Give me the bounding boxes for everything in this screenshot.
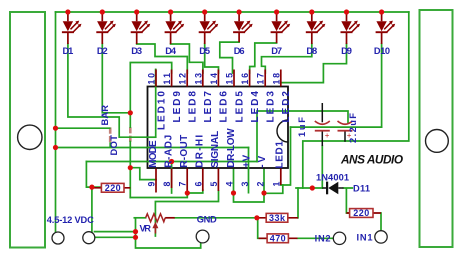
wire: gnd riser inside IC — [257, 111, 289, 162]
svg-text:ANS AUDIO: ANS AUDIO — [340, 153, 403, 167]
LED D2 — [96, 12, 116, 44]
svg-text:+: + — [325, 131, 330, 140]
wire: 470 to IN2 pad — [298, 237, 334, 239]
svg-text:DR-LOW: DR-LOW — [226, 128, 237, 168]
wire: VR left column down to ground pad — [136, 218, 201, 248]
wire: junction down to 220 link — [129, 168, 131, 198]
wire: pin 4 to pin 2 loop — [234, 193, 265, 202]
mounting hole right — [426, 130, 449, 153]
mounting hole left — [18, 125, 42, 149]
svg-text:VR: VR — [140, 224, 152, 234]
svg-text:1: 1 — [271, 182, 281, 187]
wire: pin 3 drop inside IC — [248, 148, 250, 169]
pin 6 stub — [202, 169, 204, 192]
node pin7 — [185, 190, 190, 195]
board edge strip right — [420, 10, 453, 247]
pad VDC minus — [83, 232, 95, 244]
pin 8 stub — [171, 169, 173, 189]
LED D8 — [306, 12, 326, 44]
wire: cap line y127 from pin1 riser to D10 — [291, 126, 382, 128]
svg-text:LED3: LED3 — [266, 91, 277, 123]
svg-text:18: 18 — [271, 73, 281, 85]
svg-text:5: 5 — [209, 182, 219, 187]
wire: mode net jog to pin 9 — [130, 168, 156, 180]
wire: dot node vertical and to pin 11 — [130, 63, 171, 128]
wire: +V rail right drop — [303, 12, 409, 188]
svg-text:D2: D2 — [97, 46, 108, 56]
svg-text:4.5-12 VDC: 4.5-12 VDC — [47, 215, 94, 225]
wire: pin 7 to pin 6 — [187, 190, 203, 193]
node pin2 — [261, 190, 266, 195]
svg-text:D3: D3 — [131, 46, 142, 56]
wire: D4 cathode to pin 13 — [171, 44, 203, 73]
LED D1 — [62, 12, 82, 44]
node D9 anode — [344, 9, 349, 14]
svg-text:7: 7 — [178, 182, 188, 187]
wire: +V rail left drop to supply pad — [55, 12, 57, 233]
pin 17 stub — [264, 70, 266, 87]
wire: dot node green tail to mode line — [129, 142, 131, 148]
svg-text:D6: D6 — [234, 46, 245, 56]
wire: +V line across IC — [148, 147, 249, 149]
svg-text:GND: GND — [197, 215, 217, 225]
wire: D1 cathode to pin 10 — [68, 44, 156, 137]
wire: ground drop to supply minus pad — [91, 187, 93, 232]
pin 9 stub — [155, 169, 157, 193]
svg-text:17: 17 — [256, 73, 266, 85]
resistor 470 — [259, 233, 298, 243]
svg-text:IN2: IN2 — [315, 234, 331, 244]
svg-text:+V: +V — [241, 154, 252, 167]
resistor 220 (right, input) — [346, 208, 381, 218]
LED D3 — [131, 12, 151, 44]
node dot-jumper — [128, 110, 133, 115]
node D5 anode — [202, 9, 207, 14]
pin 18 stub — [280, 70, 282, 87]
wire: VR left lead — [134, 217, 145, 219]
wire: +V line y147.5 to pin 3 — [56, 148, 249, 193]
pin 11 stub — [171, 70, 173, 87]
svg-text:16: 16 — [240, 73, 250, 85]
wire: pin 8 drop — [171, 162, 173, 194]
svg-text:LED9: LED9 — [172, 91, 183, 123]
pin 13 stub — [202, 70, 204, 87]
wire: +V top rail — [56, 11, 409, 13]
svg-text:SIGNAL: SIGNAL — [210, 131, 221, 168]
wire: +V branch y128 to BAR jumper — [56, 127, 110, 129]
LED D5 — [199, 12, 219, 44]
svg-text:3: 3 — [240, 182, 250, 187]
wire: D6 cathode to pin 15 — [220, 42, 239, 73]
node D7 anode — [274, 9, 279, 14]
node rail y147 — [53, 145, 58, 150]
svg-text:LED6: LED6 — [219, 91, 230, 123]
pin 1 stub — [280, 169, 282, 186]
svg-text:14: 14 — [209, 73, 219, 85]
svg-text:8: 8 — [162, 182, 172, 187]
wire: pin 10 jog inside IC — [147, 136, 156, 138]
VR wiper arrow — [154, 228, 156, 234]
wire: pin 5 to VR wiper — [155, 191, 218, 236]
node 220 left — [89, 185, 94, 190]
wire: D10 cathode down to cap line — [381, 44, 383, 127]
svg-text:220: 220 — [353, 208, 369, 218]
svg-text:DOT: DOT — [109, 135, 119, 156]
node gnd line — [254, 215, 259, 220]
wire: +V line to diode anode — [296, 187, 322, 189]
pin 10 stub — [155, 70, 157, 87]
svg-text:D7: D7 — [271, 46, 282, 56]
svg-text:D4: D4 — [165, 46, 177, 56]
pin 16 stub — [249, 70, 251, 87]
pin 12 stub — [186, 70, 188, 87]
svg-text:1uF: 1uF — [297, 117, 307, 137]
svg-text:D5: D5 — [199, 46, 210, 56]
svg-text:10: 10 — [147, 73, 157, 85]
svg-text:1N4001: 1N4001 — [316, 173, 349, 183]
green wires drawn over IC body — [147, 70, 289, 169]
svg-text:2.2uF: 2.2uF — [348, 113, 358, 143]
pin 5 stub — [217, 169, 219, 192]
pad IN1 — [375, 231, 387, 243]
LED D4 — [165, 12, 185, 44]
svg-text:D8: D8 — [306, 46, 317, 56]
svg-text:IN1: IN1 — [357, 233, 373, 243]
LED D9 — [341, 12, 361, 44]
wire: pin 1 hook to -V node — [264, 185, 283, 193]
LED D6 — [233, 12, 253, 42]
svg-text:R-ADJ: R-ADJ — [163, 135, 174, 168]
svg-text:LED2: LED2 — [281, 91, 292, 123]
svg-text:MODE: MODE — [148, 140, 159, 168]
jumper BAR — [109, 127, 112, 142]
wire: pin 2 stub green — [263, 169, 265, 194]
svg-text:9: 9 — [147, 182, 157, 187]
LED D7 — [271, 12, 291, 43]
node rail y128 — [53, 126, 58, 131]
svg-text:470: 470 — [270, 233, 286, 243]
pad VDC plus — [52, 232, 64, 244]
node mode junction — [128, 165, 133, 170]
node vr column b — [133, 235, 138, 240]
wire: diode cathode to 220 — [344, 188, 353, 213]
wire: pin 4 stub green — [233, 169, 235, 194]
wire: 220 to pin 7 link — [130, 193, 187, 198]
board edge strip left — [10, 12, 45, 248]
wire: 33k right riser to +V line — [297, 188, 299, 218]
wire: gnd line across IC — [148, 161, 258, 163]
svg-text:LED4: LED4 — [250, 91, 261, 123]
svg-text:LED5: LED5 — [234, 91, 245, 123]
wire: D7 cathode to pin 16 — [250, 43, 277, 73]
pad GND — [196, 230, 209, 243]
svg-text:-V: -V — [257, 155, 268, 167]
wire: pin10 net inside IC — [155, 70, 157, 138]
wire: supply minus pad links to VR column — [95, 231, 136, 233]
wire: D3 cathode to pin 12 — [137, 44, 188, 73]
resistor 220 (left, R-OUT) — [94, 183, 130, 193]
jumper DOT — [129, 127, 132, 142]
pin 15 stub — [233, 70, 235, 87]
node D1 anode — [65, 9, 70, 14]
node vr column a — [133, 229, 138, 234]
node pin4 — [231, 190, 236, 195]
node pin8 gnd — [169, 159, 174, 164]
svg-text:13: 13 — [193, 73, 203, 85]
svg-text:4: 4 — [225, 182, 235, 187]
wire: D2 cathode to dot node — [102, 44, 130, 113]
svg-text:D10: D10 — [374, 46, 390, 56]
wire: mode net down to junction — [129, 148, 131, 168]
svg-text:R-OUT: R-OUT — [179, 135, 190, 168]
wire: ground riser inside IC — [257, 111, 348, 162]
wire: VR right to ground dot — [175, 217, 258, 219]
pin 7 stub — [186, 169, 188, 192]
node D6 anode — [237, 9, 242, 14]
svg-text:D11: D11 — [353, 184, 370, 194]
svg-text:LED1: LED1 — [274, 141, 285, 169]
wire: D9 cathode to pin 18 — [281, 44, 347, 83]
LED D10 — [376, 12, 396, 44]
node diode anode — [310, 185, 315, 190]
wire: pin 8 drop inside IC — [171, 162, 173, 169]
svg-text:LED10: LED10 — [156, 91, 167, 130]
wire: cap1 bottom lead to +V line — [321, 146, 323, 188]
wire: pin 1 to riser — [281, 127, 291, 185]
node D4 anode — [168, 9, 173, 14]
wire: ground dot down to 470 — [258, 218, 267, 239]
svg-text:DR-HI: DR-HI — [195, 135, 206, 168]
node D10 anode — [379, 9, 384, 14]
svg-text:6: 6 — [193, 182, 203, 187]
wire: D8 cathode to pin 17 — [262, 44, 312, 73]
svg-text:2: 2 — [256, 182, 266, 187]
node D2 anode — [100, 9, 105, 14]
wire: 220 right to IN1 pad — [380, 213, 382, 231]
node D3 anode — [134, 9, 139, 14]
pin 14 stub — [217, 70, 219, 87]
svg-text:220: 220 — [105, 183, 121, 193]
pad IN2 — [333, 232, 345, 244]
wire: D5 cathode to pin 14 — [205, 44, 219, 73]
node D8 anode — [309, 9, 314, 14]
wire: ground line y161.5 across IC — [86, 161, 257, 163]
svg-text:11: 11 — [162, 73, 172, 85]
svg-text:D9: D9 — [341, 46, 352, 56]
svg-text:LED8: LED8 — [188, 91, 199, 123]
wire: ground left drop to 220 node — [86, 162, 101, 188]
svg-text:33k: 33k — [269, 213, 286, 223]
svg-text:D1: D1 — [63, 46, 74, 56]
resistor 33k — [258, 213, 298, 223]
svg-text:LED7: LED7 — [203, 91, 214, 123]
svg-text:15: 15 — [225, 73, 235, 85]
svg-text:12: 12 — [178, 73, 188, 85]
svg-text:BAR: BAR — [100, 105, 110, 126]
